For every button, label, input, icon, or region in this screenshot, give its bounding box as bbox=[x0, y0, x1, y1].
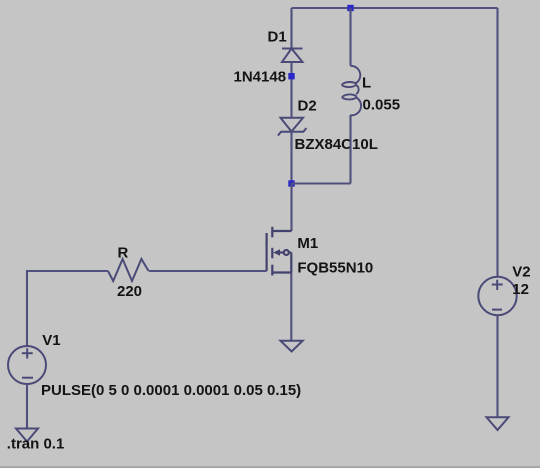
wire D1 branch top bbox=[290, 8, 292, 49]
svg-text:220: 220 bbox=[117, 283, 142, 300]
svg-text:12: 12 bbox=[512, 281, 529, 298]
svg-text:PULSE(0 5 0 0.0001 0.0001 0.05: PULSE(0 5 0 0.0001 0.0001 0.05 0.15) bbox=[41, 382, 301, 399]
wire junction to inductor bottom bbox=[292, 182, 351, 184]
ground under V1 bbox=[16, 429, 38, 442]
svg-text:V2: V2 bbox=[512, 263, 530, 280]
svg-text:.tran 0.1: .tran 0.1 bbox=[7, 436, 65, 453]
wire right branch down to V2 bbox=[496, 8, 498, 277]
diode D1 bbox=[282, 49, 303, 63]
inductor L bbox=[342, 66, 361, 116]
wire inductor bottom lead bbox=[349, 115, 351, 184]
junction node at top rail / inductor tap bbox=[347, 5, 353, 11]
svg-text:1N4148: 1N4148 bbox=[234, 68, 287, 85]
svg-text:M1: M1 bbox=[297, 235, 318, 252]
wire inductor top lead bbox=[349, 8, 351, 66]
node between D1 and D2 bbox=[288, 73, 294, 79]
wire top rail bbox=[292, 7, 498, 9]
svg-text:BZX84C10L: BZX84C10L bbox=[295, 136, 378, 153]
svg-text:D1: D1 bbox=[268, 29, 287, 46]
wire M1 source to ground bbox=[290, 273, 292, 341]
svg-text:FQB55N10: FQB55N10 bbox=[297, 259, 373, 276]
wire M1 gate to resistor R bbox=[149, 270, 267, 272]
wire V1 to ground bbox=[26, 384, 28, 429]
svg-text:D2: D2 bbox=[298, 98, 317, 115]
wire D2 to junction bbox=[290, 132, 292, 184]
wire V2 to ground bbox=[496, 315, 498, 417]
svg-text:R: R bbox=[118, 245, 129, 262]
zener diode D2 bbox=[278, 118, 307, 136]
resistor R bbox=[108, 259, 149, 281]
ground under M1 bbox=[281, 341, 303, 352]
svg-text:V1: V1 bbox=[42, 332, 60, 349]
ground under V2 bbox=[487, 417, 509, 430]
voltage source V1 bbox=[8, 346, 46, 384]
svg-text:0.055: 0.055 bbox=[363, 97, 401, 114]
wire D1 to D2 bbox=[290, 62, 292, 118]
junction node D2 / L / M1 drain bbox=[288, 180, 294, 186]
voltage source V2 bbox=[478, 277, 516, 315]
svg-text:L: L bbox=[362, 75, 371, 92]
wire resistor R to V1 bbox=[27, 271, 108, 346]
transistor M1 (NMOS) bbox=[267, 227, 292, 276]
wire junction to M1 drain bbox=[290, 184, 292, 232]
